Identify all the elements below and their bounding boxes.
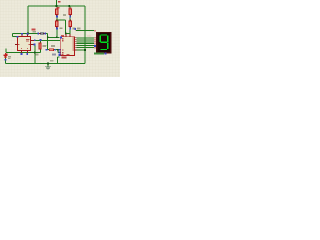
wire cap drop and down to R4: [46, 34, 48, 50]
wire left cap bottom to rail: [5, 57, 7, 64]
wire bottom ground rail: [6, 63, 85, 65]
power terminal stub: [56, 0, 58, 6]
555 left pin stub: [15, 44, 17, 46]
capacitor C2 horizontal: [32, 29, 47, 36]
wire display seg rows: [76, 38, 93, 48]
timer 555 U1: [15, 33, 36, 55]
ground symbol: [45, 67, 51, 69]
counter IC U2: [59, 34, 77, 58]
capacitor C1 bottom-left: [4, 53, 12, 61]
wire R4 right to IC: [54, 49, 60, 51]
wire R4 left pin: [47, 49, 50, 51]
IC pin number texts: [62, 38, 64, 39]
wire display seg top: [76, 30, 94, 32]
segment d: [101, 49, 108, 51]
wire stray stub left: [5, 49, 7, 53]
terminal above IC right: [74, 27, 80, 30]
wire R2 top stub: [69, 6, 71, 9]
display pins pink: [94, 31, 96, 48]
wire IC pin to x85: [76, 49, 85, 51]
segment g: [101, 41, 108, 43]
resistor R2 upper: [69, 7, 72, 17]
resistor R1 lower: [56, 14, 66, 29]
wire col2 bottom: [69, 28, 71, 34]
wire link col1 tap to IC: [57, 17, 66, 34]
555 pin number texts: [18, 44, 19, 45]
IC top pin stubs: [66, 34, 70, 37]
wire col1 bottom to node: [56, 28, 58, 38]
wire right vertical x85: [84, 6, 86, 64]
555 right pin stubs: [31, 40, 34, 44]
wire trigger row y52.5: [6, 52, 40, 54]
555 bottom pin stubs: [22, 51, 28, 54]
wire col2 mid link: [69, 17, 71, 21]
wire R3 pins: [39, 40, 41, 52]
wire branch to second IC pin: [58, 50, 60, 53]
555 top pin stubs: [22, 34, 28, 37]
resistor R2 lower: [69, 20, 76, 30]
wire IC top pins row: [66, 32, 71, 35]
wire left drop from rail: [27, 6, 29, 34]
segment a: [100, 35, 108, 50]
IC right pin stubs red: [75, 38, 77, 50]
IC ref label: [61, 35, 64, 37]
IC left pin dots: [60, 36, 62, 38]
wire top VCC rail: [6, 0, 94, 66]
resistor R1 upper: [56, 7, 60, 17]
wire 555 right pin2 drop: [34, 45, 36, 64]
IC value label below: [62, 57, 67, 59]
resistor R4 horizontal: [46, 45, 57, 55]
wire 555 output row: [35, 39, 60, 41]
wire vcc row y33.5: [13, 33, 39, 35]
text near 555 drop wire: [35, 54, 38, 56]
wire IC gnd to rail: [58, 57, 60, 64]
wire R1 top stub: [56, 6, 58, 9]
wire ground stub: [47, 64, 49, 67]
wire jog to 555 pin: [13, 34, 18, 37]
7-segment display: [87, 31, 112, 55]
segment f: [99, 35, 101, 42]
resistor R3 vertical mid: [39, 39, 47, 49]
wire node row y37.3: [48, 36, 60, 38]
segment c: [107, 43, 109, 50]
display bottom strip: [94, 52, 104, 54]
junction dots: [27, 5, 86, 64]
segment b: [107, 35, 109, 42]
power label red text: [58, 1, 61, 3]
